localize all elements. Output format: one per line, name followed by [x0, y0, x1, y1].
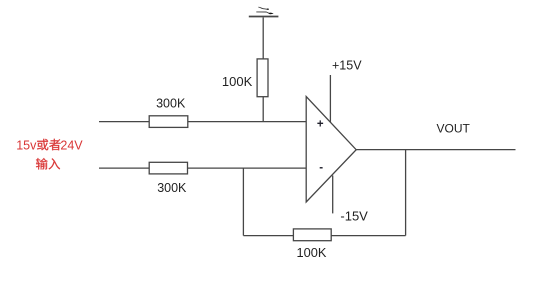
svg-text:300K: 300K [156, 97, 186, 111]
svg-text:-: - [319, 162, 323, 174]
svg-text:15v: 15v [16, 138, 37, 152]
svg-text:300K: 300K [157, 181, 187, 195]
svg-text:-15V: -15V [340, 208, 368, 223]
svg-text:24V: 24V [60, 138, 83, 152]
svg-text:+15V: +15V [332, 58, 362, 72]
svg-text:100K: 100K [222, 74, 253, 89]
svg-text:VOUT: VOUT [437, 122, 471, 136]
svg-text:+: + [317, 118, 324, 130]
svg-text:100K: 100K [297, 245, 327, 260]
